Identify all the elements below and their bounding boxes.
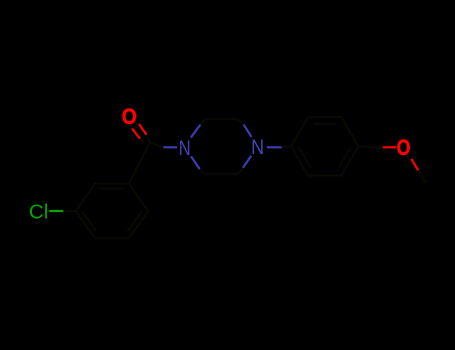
bond C=O double: dark halves (147, 135, 151, 143)
bond O2-CH3 red half (411, 159, 418, 171)
bond N1-C6p blue half (191, 156, 200, 169)
bond N4-C3p blue half (244, 125, 252, 138)
bond C0-N1 blue half (163, 146, 177, 148)
bond C=O double: red halves (139, 124, 147, 135)
inner aromatic lines methoxyphenyl (313, 123, 336, 125)
wire: piperazine ring dark segments (200, 119, 244, 174)
bond N4-C5p blue half (243, 156, 251, 168)
svg-text:O: O (122, 104, 137, 129)
bond Cl-ring dark half (63, 210, 75, 212)
svg-text:N: N (179, 136, 191, 160)
bond C0-C1 (carbonyl C to ring) (129, 143, 150, 184)
svg-text:O: O (397, 135, 411, 160)
wire: benzene ring (methoxyphenyl) outline (291, 117, 358, 175)
wire: benzene ring (chlorophenyl) outline (76, 184, 149, 239)
bond N4-C1r blue half (267, 146, 282, 148)
bond O2-CH3 dark half (418, 170, 425, 182)
bond N1-C2p blue half (191, 125, 201, 138)
bond C4r-O2 dark half (358, 145, 383, 148)
inner aromatic lines chlorophenyl (100, 188, 124, 190)
bond C4r-O2 red half (383, 146, 396, 148)
svg-text:N: N (251, 135, 264, 159)
bond N4-C1r dark half (282, 145, 292, 148)
bond C0-N1 dark half (150, 143, 163, 148)
bond Cl-ring green half (49, 210, 63, 212)
svg-text:Cl: Cl (29, 201, 48, 224)
